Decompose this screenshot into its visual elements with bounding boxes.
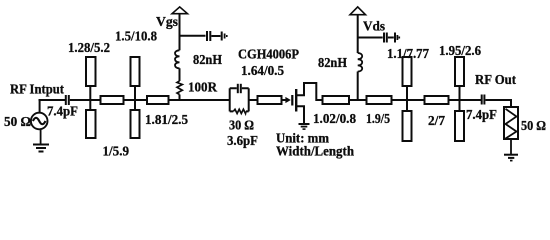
wire — [124, 99, 148, 101]
transistor Q1 gate bar — [291, 95, 293, 106]
stub TL5 1/5.9 lower — [131, 110, 140, 138]
stub TL13 1.95/2.6 upper — [455, 57, 464, 86]
svg-text:1.02/0.8: 1.02/0.8 — [313, 112, 356, 127]
series TL9 1.9/5 — [367, 96, 392, 104]
series TL12 2/7 — [425, 96, 449, 104]
inductor L2 82nH — [358, 53, 363, 72]
Vds bypass branch wire — [358, 37, 383, 39]
node A stem — [89, 86, 91, 110]
wire box to series TL7 — [249, 99, 258, 101]
svg-text:50 Ω: 50 Ω — [521, 119, 546, 134]
source V1 50-ohm — [31, 113, 48, 130]
transistor Q1 source lead — [297, 106, 304, 123]
sine wave inside source — [33, 118, 46, 124]
stub TL1 1.28/5.2 upper — [86, 57, 96, 86]
gate bias stem lower — [179, 95, 181, 101]
stub TL14 lower — [455, 111, 464, 141]
node B stem — [134, 86, 136, 110]
svg-text:1.95/2.6: 1.95/2.6 — [439, 44, 481, 59]
bypass capacitor C2 — [206, 31, 208, 41]
Vgs supply triangle — [172, 7, 188, 14]
series TL3 — [101, 96, 124, 104]
stub TL10 1.1/7.77 upper — [403, 57, 412, 86]
stub TL11 lower — [403, 111, 412, 141]
wire to bypass ground — [388, 37, 394, 39]
ground under source — [40, 129, 42, 144]
Vds supply triangle — [350, 7, 366, 15]
stub TL2 lower — [86, 110, 96, 138]
wire — [349, 99, 367, 101]
RC box top edge with capacitor C3 3.6pF — [230, 87, 249, 89]
series TL8 1.02/0.8 — [323, 96, 350, 104]
wire source to top — [39, 99, 41, 112]
svg-text:3.6pF: 3.6pF — [227, 134, 258, 149]
svg-text:7.4pF: 7.4pF — [466, 108, 497, 123]
svg-text:2/7: 2/7 — [428, 114, 445, 129]
RC box left edge — [229, 88, 231, 111]
ground under load — [510, 139, 512, 154]
svg-text:1.28/5.2: 1.28/5.2 — [68, 41, 110, 56]
svg-text:RF Intput: RF Intput — [10, 83, 64, 98]
wire to bypass ground — [211, 35, 220, 37]
svg-text:82nH: 82nH — [193, 53, 222, 68]
capacitor C5 7.4pF output — [481, 95, 483, 105]
svg-text:1.64/0.5: 1.64/0.5 — [241, 64, 284, 79]
svg-text:1.1/7.77: 1.1/7.77 — [387, 47, 429, 62]
bypass ground (sideways) — [394, 33, 396, 43]
svg-text:7.4pF: 7.4pF — [47, 105, 78, 120]
svg-text:CGH4006P: CGH4006P — [238, 48, 299, 63]
svg-text:82nH: 82nH — [318, 56, 347, 71]
Vgs bypass branch wire — [180, 35, 206, 37]
svg-text:Width/Length: Width/Length — [276, 145, 354, 160]
load resistor R3 50 ohm — [504, 107, 518, 139]
gate arrow — [285, 97, 290, 103]
node C stem — [406, 86, 408, 112]
capacitor C1 7.4pF — [65, 95, 67, 105]
wire — [449, 99, 482, 101]
svg-text:100R: 100R — [188, 81, 218, 96]
svg-text:1/5.9: 1/5.9 — [103, 145, 130, 160]
RC box bottom edge with resistor R2 30 ohm — [230, 110, 249, 112]
transistor Q1 drain lead — [297, 83, 323, 100]
series TL7 1.64/0.5 — [258, 96, 282, 104]
svg-text:Vds: Vds — [363, 20, 386, 35]
svg-text:50 Ω: 50 Ω — [4, 115, 31, 130]
svg-text:1.81/2.5: 1.81/2.5 — [145, 113, 188, 128]
wire cap to node A — [70, 99, 101, 101]
node D stem — [459, 86, 461, 112]
series TL6 1.81/2.5 — [147, 96, 169, 104]
resistor R1 100R zigzag — [177, 81, 182, 95]
gate wire — [282, 99, 287, 101]
svg-text:30 Ω: 30 Ω — [229, 119, 254, 134]
drain bias stem — [357, 15, 359, 101]
stub TL4 1.5/10.8 upper — [131, 57, 140, 86]
RC box right edge — [248, 88, 250, 111]
wire to input cap — [39, 99, 66, 101]
inductor L1 82nH — [175, 50, 180, 68]
bypass capacitor C4 — [383, 33, 385, 43]
transistor ground — [299, 123, 310, 125]
svg-text:RF Out: RF Out — [475, 73, 516, 88]
svg-text:1.9/5: 1.9/5 — [366, 112, 390, 127]
wire to load — [485, 100, 511, 107]
wire zigzag to coil — [179, 14, 181, 81]
wire — [392, 99, 425, 101]
svg-text:1.5/10.8: 1.5/10.8 — [115, 30, 157, 45]
bypass ground (sideways) — [221, 32, 223, 41]
transistor Q1 channel bar — [295, 89, 297, 112]
wire to RC network — [169, 99, 230, 101]
svg-text:Vgs: Vgs — [156, 15, 179, 30]
